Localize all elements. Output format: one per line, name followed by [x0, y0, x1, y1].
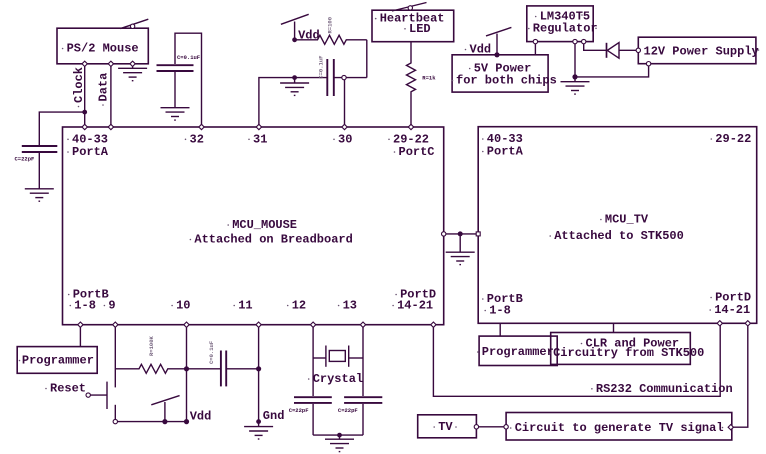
- svg-text:R=100K: R=100K: [148, 335, 155, 356]
- svg-text:Gnd: Gnd: [263, 409, 285, 423]
- svg-text:12: 12: [292, 299, 306, 313]
- svg-text:C=0.1uF: C=0.1uF: [318, 56, 325, 79]
- svg-text:10: 10: [176, 299, 190, 313]
- svg-text:Vdd: Vdd: [470, 43, 492, 57]
- svg-text:Programmer: Programmer: [22, 354, 94, 368]
- svg-text:C=0.1uF: C=0.1uF: [208, 341, 215, 364]
- svg-text:14-21: 14-21: [397, 299, 433, 313]
- svg-text:13: 13: [343, 299, 357, 313]
- svg-text:C=0.1uF: C=0.1uF: [177, 54, 200, 61]
- svg-text:1-8: 1-8: [489, 304, 511, 318]
- svg-text:30: 30: [338, 132, 352, 146]
- svg-text:1-8: 1-8: [74, 299, 96, 313]
- svg-text:PS/2 Mouse: PS/2 Mouse: [67, 42, 139, 56]
- svg-text:PortA: PortA: [487, 145, 524, 159]
- svg-text:Clock: Clock: [72, 67, 86, 103]
- svg-text:LED: LED: [409, 22, 431, 36]
- svg-text:31: 31: [253, 132, 267, 146]
- svg-text:Crystal: Crystal: [313, 372, 363, 386]
- svg-text:C=22pF: C=22pF: [338, 407, 358, 414]
- svg-text:C=22pF: C=22pF: [15, 155, 35, 162]
- svg-text:11: 11: [238, 299, 252, 313]
- svg-text:MCU_MOUSE: MCU_MOUSE: [232, 218, 297, 232]
- svg-text:Reset: Reset: [50, 382, 86, 396]
- svg-text:Attached to STK500: Attached to STK500: [554, 229, 684, 243]
- svg-text:Circuit to generate TV signal: Circuit to generate TV signal: [515, 421, 724, 435]
- svg-text:Attached on Breadboard: Attached on Breadboard: [194, 233, 352, 247]
- svg-text:Vdd: Vdd: [190, 410, 212, 424]
- svg-text:TV: TV: [438, 420, 453, 434]
- svg-text:R=100: R=100: [327, 17, 334, 34]
- svg-text:32: 32: [190, 132, 204, 146]
- svg-text:MCU_TV: MCU_TV: [605, 213, 649, 227]
- svg-text:Data: Data: [97, 73, 111, 102]
- svg-text:Vdd: Vdd: [298, 28, 320, 42]
- svg-text:Regulator: Regulator: [533, 22, 598, 36]
- svg-text:for both chips: for both chips: [456, 74, 557, 88]
- svg-text:C=22pF: C=22pF: [289, 407, 309, 414]
- svg-text:Circuitry from STK500: Circuitry from STK500: [553, 346, 704, 360]
- svg-text:RS232 Communication: RS232 Communication: [596, 382, 733, 396]
- svg-text:PortC: PortC: [399, 145, 435, 159]
- svg-text:12V Power Supply: 12V Power Supply: [644, 45, 759, 59]
- svg-text:Programmer: Programmer: [482, 345, 554, 359]
- svg-text:29-22: 29-22: [715, 132, 751, 146]
- svg-text:9: 9: [108, 299, 115, 313]
- svg-text:R=1k: R=1k: [422, 75, 436, 82]
- svg-text:14-21: 14-21: [714, 303, 750, 317]
- svg-text:PortA: PortA: [72, 145, 109, 159]
